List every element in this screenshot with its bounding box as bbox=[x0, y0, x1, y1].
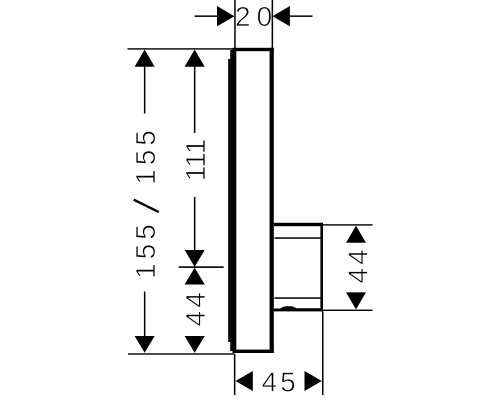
plate bottom edge bbox=[233, 350, 274, 353]
plate back (wall) edge bbox=[270, 48, 274, 353]
dim 20 leader right bbox=[290, 15, 313, 17]
dim 155 extension line bottom bbox=[128, 353, 235, 354]
dim 111 line upper segment bbox=[194, 60, 196, 133]
dim 111/44 tick line bbox=[179, 266, 224, 268]
dim 45 arrow right bbox=[305, 371, 322, 391]
dim 44 right arrow down bbox=[346, 292, 366, 309]
dim 44 left arrow up bbox=[185, 268, 205, 285]
svg-text:45: 45 bbox=[262, 367, 299, 398]
dim 155 line upper segment bbox=[144, 60, 146, 114]
dim 111 arrow up bbox=[185, 50, 205, 67]
dim 45 extension line right bbox=[322, 312, 324, 396]
dim 111 arrow down bbox=[185, 250, 205, 267]
dim 20 extension line right bbox=[272, 0, 274, 48]
valve box bottom edge (with bump) bbox=[274, 306, 323, 311]
dim 20 leader left bbox=[195, 15, 218, 17]
dim 155 label slash bbox=[134, 200, 159, 212]
dim 45 extension line left bbox=[234, 354, 236, 395]
svg-text:44: 44 bbox=[342, 246, 373, 283]
dim 155 arrow down bbox=[135, 336, 155, 353]
valve box top edge bbox=[274, 223, 323, 226]
plate front lip bbox=[228, 59, 230, 342]
plate front face bbox=[230, 50, 236, 351]
svg-text:44: 44 bbox=[180, 289, 211, 326]
svg-text:111: 111 bbox=[180, 139, 211, 182]
dim 20 arrow left bbox=[217, 6, 234, 26]
plate top edge bbox=[233, 48, 274, 51]
dim 44 right arrow up bbox=[346, 226, 366, 243]
svg-text:20: 20 bbox=[235, 1, 278, 32]
dim 155 arrow up bbox=[135, 50, 155, 67]
valve box inner line lower bbox=[275, 297, 322, 299]
dim 20 extension line left bbox=[234, 0, 236, 48]
valve box inner line upper bbox=[275, 237, 322, 239]
dim 45 arrow left bbox=[236, 371, 253, 391]
dim 111 line lower segment bbox=[194, 197, 196, 252]
valve box right edge bbox=[320, 223, 323, 312]
svg-text:155 155: 155 155 bbox=[130, 126, 161, 279]
dim 155 extension line top bbox=[128, 48, 234, 49]
dim 44 left arrow down bbox=[185, 336, 205, 353]
dim 20 arrow right bbox=[273, 6, 290, 26]
dim 44 right extension line top bbox=[323, 224, 373, 225]
dim 155 line lower segment bbox=[144, 292, 146, 337]
dim 44 right extension line bottom bbox=[323, 310, 373, 311]
